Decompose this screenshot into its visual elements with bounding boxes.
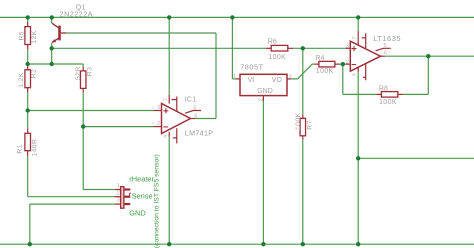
svg-text:R3: R3 — [86, 67, 93, 77]
svg-text:100K: 100K — [268, 54, 286, 61]
svg-text:IC1: IC1 — [184, 94, 197, 103]
svg-text:4: 4 — [352, 73, 358, 76]
svg-text:7: 7 — [163, 98, 169, 101]
svg-text:R4: R4 — [315, 55, 324, 62]
svg-text:LM741P: LM741P — [185, 129, 214, 138]
svg-text:7805T: 7805T — [240, 62, 263, 71]
svg-text:R6: R6 — [268, 38, 277, 45]
svg-text:(connection to IST FS5 sensor): (connection to IST FS5 sensor) — [154, 154, 161, 248]
svg-text:3: 3 — [289, 74, 292, 80]
svg-text:3: 3 — [117, 198, 120, 204]
svg-text:6: 6 — [384, 50, 387, 56]
svg-text:6: 6 — [194, 114, 197, 120]
svg-text:5: 5 — [193, 105, 196, 111]
svg-text:52R: 52R — [75, 66, 82, 80]
svg-text:GND: GND — [257, 88, 273, 95]
svg-text:R5: R5 — [19, 31, 26, 41]
svg-text:100K: 100K — [316, 68, 334, 75]
svg-text:R2: R2 — [30, 69, 37, 79]
svg-text:R1: R1 — [16, 144, 23, 154]
svg-text:LT1635: LT1635 — [373, 34, 401, 43]
svg-text:2: 2 — [157, 121, 160, 127]
svg-text:7: 7 — [352, 36, 358, 39]
svg-text:1.2K: 1.2K — [18, 72, 25, 88]
svg-text:VI: VI — [248, 77, 255, 84]
svg-text:100K: 100K — [379, 99, 397, 106]
svg-text:1: 1 — [117, 183, 120, 189]
svg-text:rHeater: rHeater — [129, 174, 154, 183]
svg-text:2: 2 — [346, 60, 349, 66]
svg-text:R7: R7 — [306, 120, 313, 130]
svg-text:5: 5 — [384, 43, 387, 49]
svg-text:2: 2 — [117, 190, 120, 196]
svg-text:4: 4 — [163, 135, 169, 138]
svg-text:2: 2 — [259, 98, 265, 101]
svg-text:140R: 140R — [31, 139, 38, 157]
svg-text:3: 3 — [157, 105, 160, 111]
svg-text:2N2222A: 2N2222A — [60, 10, 93, 19]
svg-text:100K: 100K — [295, 112, 302, 130]
svg-text:R8: R8 — [379, 85, 388, 92]
svg-text:Sense: Sense — [132, 191, 153, 200]
svg-text:GND: GND — [129, 208, 145, 217]
svg-text:1: 1 — [233, 74, 236, 80]
svg-text:3: 3 — [346, 43, 349, 49]
svg-text:12K: 12K — [31, 30, 38, 43]
svg-text:VO: VO — [272, 77, 283, 84]
